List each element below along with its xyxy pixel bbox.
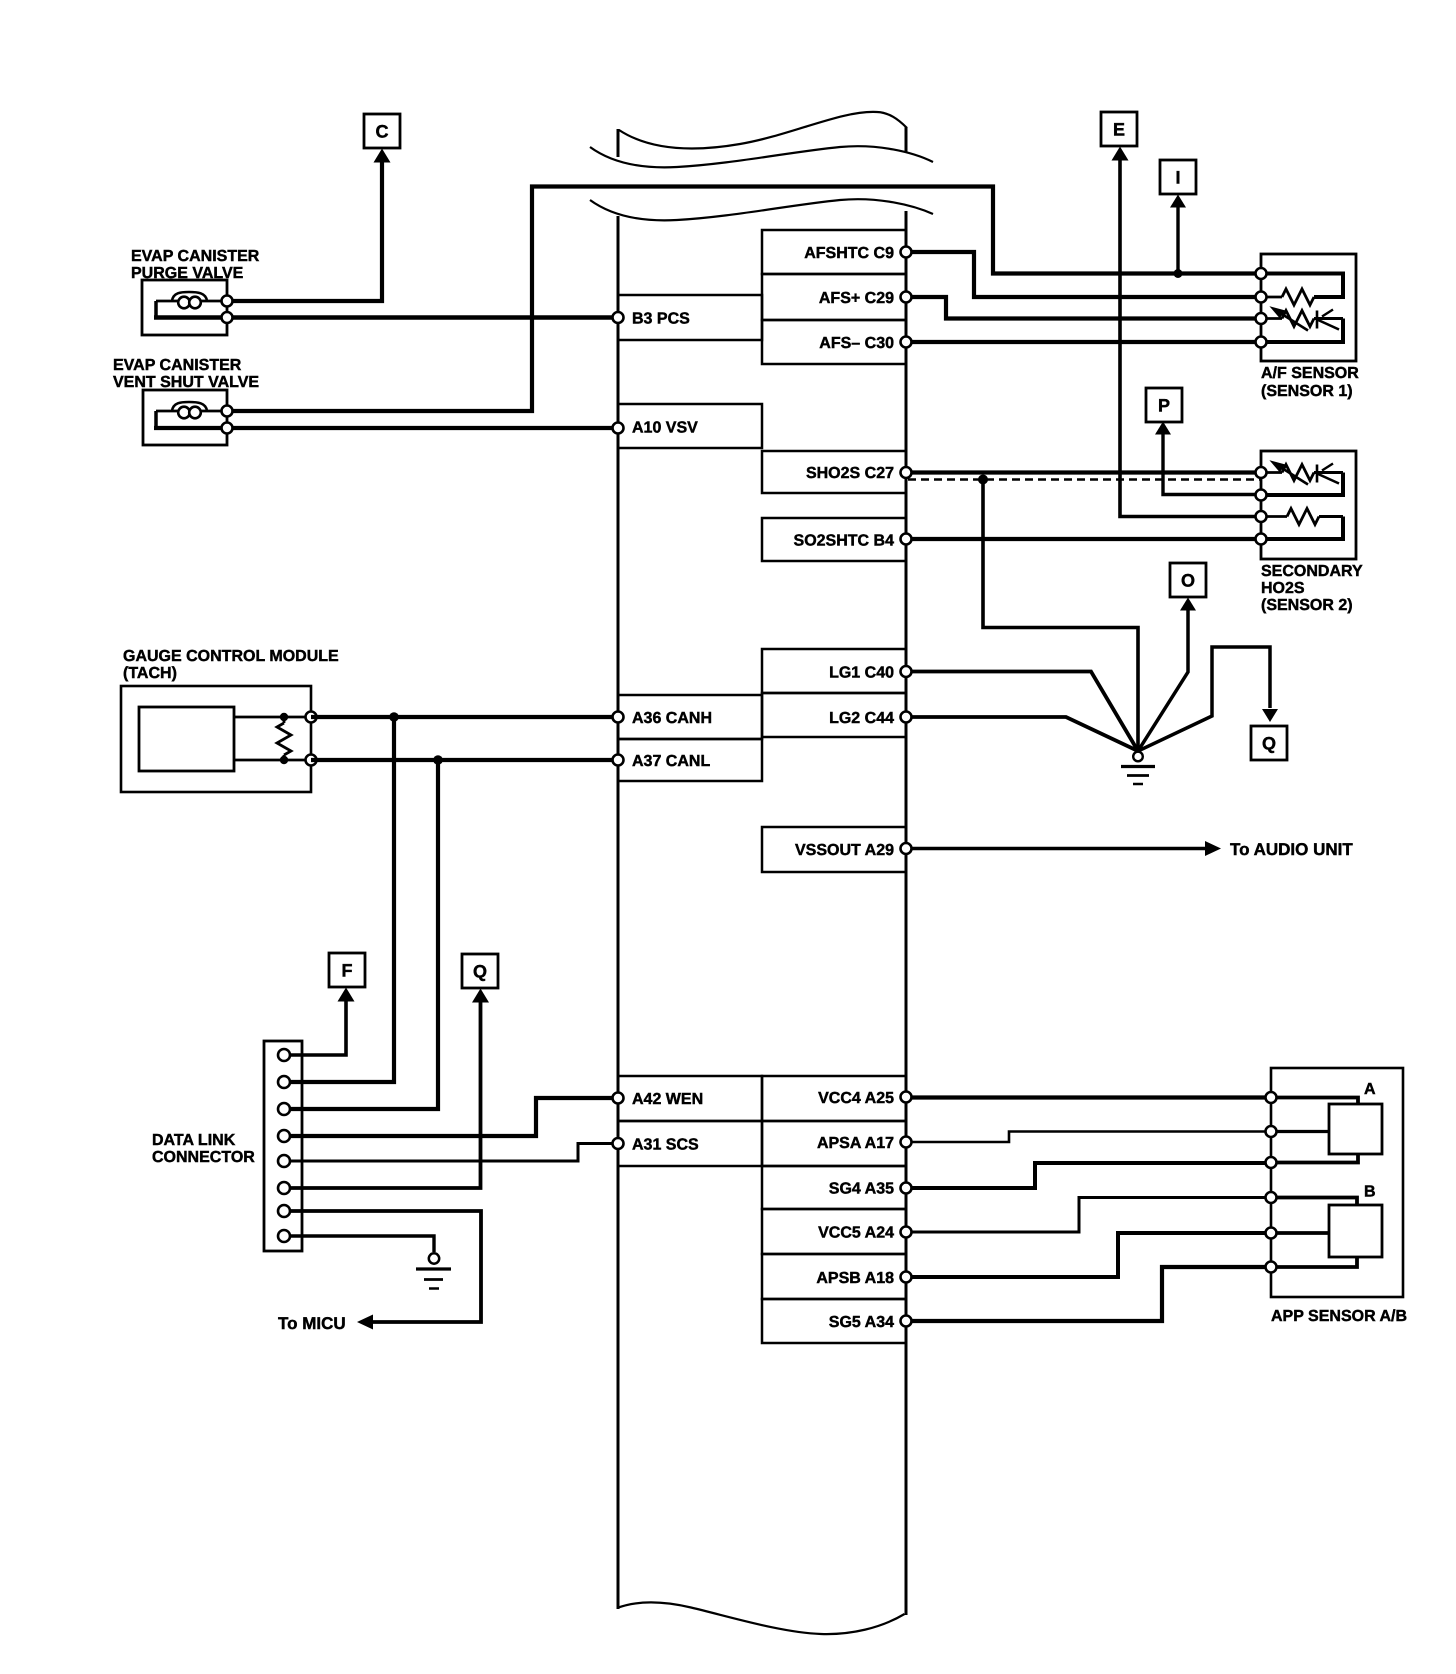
wire DLC pin4 to A42 WEN	[284, 1098, 618, 1136]
APP sensor terminal 3	[1266, 1157, 1277, 1168]
ECM pin box SO2SHTC B4	[762, 518, 906, 561]
GCM terminal CANL	[306, 755, 317, 766]
APP sensor element B box	[1329, 1205, 1382, 1257]
wire AFSHTC C9 to A/F sensor	[906, 252, 1261, 297]
label A	[1364, 1081, 1376, 1098]
connector Q box (left)	[462, 954, 498, 988]
A/F sensor terminal 3	[1256, 313, 1267, 324]
wire to connector Q (right)	[1138, 647, 1278, 751]
DLC pin 8	[278, 1230, 290, 1242]
ECM terminal LG1 C40	[901, 666, 912, 677]
purge valve terminal 1	[222, 296, 233, 307]
APP sensor element A box	[1329, 1104, 1382, 1154]
wire DLC pin3 to CANL	[284, 760, 438, 1109]
ECM pin box SG5 A34	[762, 1299, 906, 1343]
DLC pin 1	[278, 1049, 290, 1061]
APP sensor terminal 5	[1266, 1228, 1277, 1239]
connector P box	[1146, 388, 1182, 422]
DLC pin 5	[278, 1155, 290, 1167]
APP sensor terminal 4	[1266, 1192, 1277, 1203]
APP sensor internal wire T4	[1271, 1198, 1357, 1206]
pin label APSB A18	[816, 1270, 894, 1287]
wire to connector P	[1155, 422, 1261, 495]
APP sensor internal wire T1	[1271, 1098, 1358, 1105]
ECM pin box SHO2S C27	[762, 451, 906, 493]
pin label LG1 C40	[829, 665, 894, 682]
ECM pin box SG4 A35	[762, 1166, 906, 1209]
svg-text:O: O	[1181, 571, 1195, 591]
wire SHO2S C27 to secondary HO2S	[906, 470, 1261, 474]
pin label AFS- C30	[819, 335, 894, 352]
ECM terminal A42 WEN	[613, 1093, 624, 1104]
ECM pin box AFSHTC C9	[762, 230, 906, 274]
ECM terminal A37 CANL	[613, 755, 624, 766]
pin label SG4 A35	[829, 1181, 894, 1198]
svg-text:AFS– C30: AFS– C30	[819, 335, 894, 352]
ECM column right edge	[905, 211, 908, 1615]
svg-text:EVAP CANISTER: EVAP CANISTER	[113, 357, 242, 374]
svg-text:EVAP CANISTER: EVAP CANISTER	[131, 248, 260, 265]
svg-text:AFS+ C29: AFS+ C29	[819, 290, 894, 307]
svg-text:AFSHTC C9: AFSHTC C9	[804, 245, 894, 262]
APP sensor terminal 2	[1266, 1126, 1277, 1137]
pin label AFSHTC C9	[804, 245, 894, 262]
vent valve internal wire	[156, 411, 227, 428]
gauge control module outer box	[121, 686, 311, 792]
ECM column right edge (top stub)	[905, 127, 908, 153]
solenoid coil L1 (purge valve)	[172, 292, 207, 308]
GCM internal wires	[234, 717, 311, 760]
connector F box	[329, 953, 365, 987]
resistor R1 (CAN terminating)	[277, 713, 291, 764]
wire APSB A18 to APP sensor	[906, 1233, 1271, 1277]
svg-text:A10 VSV: A10 VSV	[632, 420, 698, 437]
ECM terminal VCC4 A25	[901, 1092, 912, 1103]
svg-text:I: I	[1175, 168, 1180, 188]
APP sensor internal wire T5	[1271, 1231, 1329, 1235]
vent valve terminal 2	[222, 423, 233, 434]
wire LG2 C44 to ground	[906, 717, 1138, 751]
wire to connector I	[1170, 195, 1186, 279]
wire to connector E (from HO2S heater)	[1112, 147, 1262, 517]
svg-text:VCC4 A25: VCC4 A25	[818, 1090, 894, 1107]
ECM terminal AFS- C30	[901, 337, 912, 348]
svg-text:APP SENSOR A/B: APP SENSOR A/B	[1271, 1308, 1407, 1325]
ECM pin box LG1 C40	[762, 649, 906, 693]
pin label B3 PCS	[632, 311, 690, 328]
svg-text:SG4 A35: SG4 A35	[829, 1181, 894, 1198]
ECM pin box A36 CANH	[618, 695, 762, 739]
ECM terminal SO2SHTC B4	[901, 534, 912, 545]
ECM column torn-top curve 1	[619, 112, 907, 149]
ECM pin box AFS- C30	[762, 320, 906, 364]
svg-text:C: C	[376, 122, 389, 142]
APP sensor internal wire T3	[1271, 1154, 1358, 1163]
ECM terminal APSA A17	[901, 1137, 912, 1148]
DLC pin 4	[278, 1130, 290, 1142]
pin label A31 SCS	[632, 1137, 699, 1154]
wire to connector O	[1138, 598, 1196, 752]
A/F sensor terminal 2	[1256, 292, 1267, 303]
secondary HO2S element circuit	[1261, 460, 1343, 495]
wire shield drain to ground	[983, 480, 1138, 751]
ECM terminal SHO2S C27	[901, 467, 912, 478]
wire A36 CANH	[311, 715, 618, 719]
svg-text:To MICU: To MICU	[278, 1314, 346, 1333]
svg-text:VCC5 A24: VCC5 A24	[818, 1225, 894, 1242]
pin label APSA A17	[817, 1135, 894, 1152]
svg-text:VENT SHUT VALVE: VENT SHUT VALVE	[113, 374, 259, 391]
APP sensor internal wire T6	[1271, 1257, 1357, 1267]
svg-text:(SENSOR 2): (SENSOR 2)	[1261, 597, 1353, 614]
svg-text:DATA LINK: DATA LINK	[152, 1132, 236, 1149]
A/F sensor element circuit	[1261, 306, 1343, 342]
DLC pin 3	[278, 1103, 290, 1115]
wire AFS+ C29 to A/F sensor	[906, 297, 1261, 319]
ECM pin box A42 WEN	[618, 1076, 762, 1121]
APP sensor outer box	[1271, 1068, 1403, 1297]
svg-text:A31 SCS: A31 SCS	[632, 1137, 699, 1154]
pin label AFS+ C29	[819, 290, 894, 307]
svg-text:(SENSOR 1): (SENSOR 1)	[1261, 383, 1353, 400]
ECM column torn-top curve 2	[590, 146, 933, 167]
solenoid coil L2 (vent valve)	[172, 402, 207, 418]
svg-text:To AUDIO UNIT: To AUDIO UNIT	[1230, 840, 1353, 859]
svg-text:P: P	[1158, 396, 1170, 416]
ECM terminal B3 PCS	[613, 312, 624, 323]
A/F sensor outer box	[1261, 254, 1356, 361]
GCM terminal CANH	[306, 712, 317, 723]
label B	[1364, 1184, 1376, 1201]
label A/F SENSOR (SENSOR 1)	[1261, 365, 1359, 400]
wire A10 VSV (vent valve to ECM)	[154, 426, 618, 430]
svg-text:LG2 C44: LG2 C44	[829, 710, 894, 727]
gauge control module inner box	[139, 707, 234, 771]
secondary HO2S heater circuit	[1261, 509, 1343, 540]
wire SO2SHTC B4 to secondary HO2S	[906, 537, 1261, 541]
ECM column left edge (top stub)	[617, 129, 620, 157]
svg-text:APSB A18: APSB A18	[816, 1270, 894, 1287]
APP sensor terminal 6	[1266, 1262, 1277, 1273]
ECM pin box VSSOUT A29	[762, 827, 906, 872]
svg-text:SO2SHTC B4: SO2SHTC B4	[794, 533, 895, 550]
ECM terminal A10 VSV	[613, 423, 624, 434]
A/F sensor terminal 4	[1256, 337, 1267, 348]
ECM pin box A10 VSV	[618, 404, 762, 448]
purge valve terminal 2	[222, 312, 233, 323]
svg-text:Q: Q	[1262, 734, 1276, 754]
pin label A36 CANH	[632, 710, 712, 727]
connector Q box (right)	[1251, 726, 1287, 760]
ECM column torn-top curve 3	[590, 199, 933, 220]
label DATA LINK CONNECTOR	[152, 1132, 255, 1166]
svg-text:Q: Q	[473, 962, 487, 982]
shield drain (dashed) for SHO2S	[908, 478, 1261, 480]
DLC pin 6	[278, 1182, 290, 1194]
secondary HO2S terminal 2	[1256, 490, 1267, 501]
wire SG5 A34 to APP sensor	[906, 1267, 1271, 1321]
wire VSSOUT A29 to audio unit	[906, 841, 1221, 856]
svg-text:B3 PCS: B3 PCS	[632, 311, 690, 328]
label SECONDARY HO2S (SENSOR 2)	[1261, 563, 1363, 614]
wire vent shut valve to A/F sensor heater (via top)	[227, 187, 1261, 412]
ECM pin box LG2 C44	[762, 693, 906, 737]
ECM terminal SG5 A34	[901, 1316, 912, 1327]
connector I box	[1160, 160, 1196, 194]
ECM terminal LG2 C44	[901, 712, 912, 723]
connector E box	[1101, 112, 1137, 146]
ECM terminal VCC5 A24	[901, 1227, 912, 1238]
wire VCC4 A25 to APP sensor	[906, 1095, 1271, 1099]
ECM pin box VCC4 A25	[762, 1076, 906, 1121]
svg-text:A: A	[1364, 1081, 1376, 1098]
connector O box	[1170, 563, 1206, 597]
pin label SHO2S C27	[806, 465, 894, 482]
ECM column torn-bottom curve	[617, 1602, 905, 1634]
ECM pin box APSB A18	[762, 1254, 906, 1299]
ECM terminal VSSOUT A29	[901, 843, 912, 854]
wire DLC pin1 to connector F	[284, 988, 355, 1056]
connector C box	[364, 114, 400, 148]
pin label VCC5 A24	[818, 1225, 894, 1242]
label GAUGE CONTROL MODULE (TACH)	[123, 648, 339, 682]
ECM pin box A37 CANL	[618, 739, 762, 781]
ECM pin box AFS+ C29	[762, 274, 906, 320]
wire purge valve to connector C	[227, 149, 391, 302]
wire AFS- C30 to A/F sensor	[906, 340, 1261, 344]
ECM pin box APSA A17	[762, 1121, 906, 1166]
pin label A37 CANL	[632, 753, 710, 770]
EVAP canister purge valve box	[142, 280, 227, 335]
label To AUDIO UNIT	[1230, 840, 1353, 859]
svg-text:SHO2S C27: SHO2S C27	[806, 465, 894, 482]
svg-text:HO2S: HO2S	[1261, 580, 1305, 597]
ECM terminal SG4 A35	[901, 1183, 912, 1194]
data link connector box	[264, 1041, 302, 1251]
svg-text:A42 WEN: A42 WEN	[632, 1091, 703, 1108]
ECM pin box A31 SCS	[618, 1121, 762, 1166]
label APP SENSOR A/B	[1271, 1308, 1407, 1325]
ECM terminal A31 SCS	[613, 1138, 624, 1149]
label To MICU	[278, 1314, 346, 1333]
pin label VCC4 A25	[818, 1090, 894, 1107]
svg-text:GAUGE CONTROL MODULE: GAUGE CONTROL MODULE	[123, 648, 339, 665]
label EVAP CANISTER VENT SHUT VALVE	[113, 357, 259, 391]
ECM terminal AFSHTC C9	[901, 247, 912, 258]
wire DLC pin2 to CANH	[284, 717, 394, 1082]
node CANH junction	[389, 712, 399, 722]
svg-text:SECONDARY: SECONDARY	[1261, 563, 1363, 580]
pin label VSSOUT A29	[795, 842, 894, 859]
ECM pin box B3 PCS	[618, 295, 762, 340]
wire VCC5 A24 to APP sensor	[906, 1198, 1271, 1233]
label EVAP CANISTER PURGE VALVE	[131, 248, 260, 282]
pin label SG5 A34	[829, 1314, 894, 1331]
EVAP canister vent shut valve box	[143, 390, 227, 445]
node shield junction	[978, 475, 988, 485]
pin label LG2 C44	[829, 710, 894, 727]
secondary HO2S terminal 4	[1256, 534, 1267, 545]
ECM terminal A36 CANH	[613, 712, 624, 723]
A/F sensor terminal 1	[1256, 268, 1267, 279]
svg-text:VSSOUT A29: VSSOUT A29	[795, 842, 894, 859]
ECM pin box VCC5 A24	[762, 1209, 906, 1254]
ECM terminal APSB A18	[901, 1272, 912, 1283]
secondary HO2S terminal 3	[1256, 511, 1267, 522]
svg-text:LG1 C40: LG1 C40	[829, 665, 894, 682]
ground G101	[1121, 752, 1155, 784]
wire LG1 C40 to ground	[906, 672, 1138, 752]
wire B3 PCS (purge valve to ECM)	[154, 315, 618, 320]
wire APSA A17 to APP sensor	[906, 1132, 1271, 1143]
ECM column left edge	[617, 216, 620, 1609]
svg-text:(TACH): (TACH)	[123, 665, 177, 682]
pin label A10 VSV	[632, 420, 698, 437]
wire DLC pin7 to MICU	[284, 1211, 481, 1330]
svg-text:CONNECTOR: CONNECTOR	[152, 1149, 255, 1166]
wire A37 CANL	[311, 758, 618, 762]
svg-text:A37 CANL: A37 CANL	[632, 753, 710, 770]
node CANL junction	[433, 755, 443, 765]
secondary HO2S terminal 1	[1256, 467, 1267, 478]
APP sensor internal wire T2	[1271, 1130, 1329, 1133]
svg-text:SG5 A34: SG5 A34	[829, 1314, 894, 1331]
vent valve terminal 1	[222, 406, 233, 417]
secondary HO2S outer box	[1261, 451, 1356, 559]
DLC pin 2	[278, 1076, 290, 1088]
svg-text:A36 CANH: A36 CANH	[632, 710, 712, 727]
wire DLC pin5 to A31 SCS	[284, 1144, 618, 1162]
DLC pin 7	[278, 1205, 290, 1217]
ECM terminal AFS+ C29	[901, 292, 912, 303]
svg-text:B: B	[1364, 1184, 1376, 1201]
pin label A42 WEN	[632, 1091, 703, 1108]
svg-text:F: F	[342, 961, 353, 981]
pin label SO2SHTC B4	[794, 533, 895, 550]
wire DLC pin6 to connector Q (left)	[284, 989, 489, 1189]
wire DLC pin8 to ground	[284, 1236, 434, 1252]
wire SG4 A35 to APP sensor	[906, 1163, 1271, 1188]
purge valve internal wire	[156, 301, 227, 318]
svg-text:APSA A17: APSA A17	[817, 1135, 894, 1152]
ground G (DLC)	[416, 1253, 451, 1288]
APP sensor terminal 1	[1266, 1092, 1277, 1103]
svg-text:E: E	[1113, 120, 1125, 140]
svg-text:A/F SENSOR: A/F SENSOR	[1261, 365, 1359, 382]
A/F sensor heater circuit	[1261, 274, 1343, 306]
